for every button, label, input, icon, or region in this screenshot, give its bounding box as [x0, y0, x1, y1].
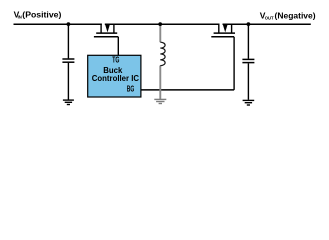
svg-text:(Negative): (Negative) [275, 11, 316, 21]
svg-text:Controller IC: Controller IC [92, 74, 140, 83]
svg-text:(Positive): (Positive) [22, 9, 61, 19]
svg-text:OUT: OUT [265, 16, 274, 21]
svg-text:TG: TG [112, 55, 119, 64]
svg-text:BG: BG [127, 84, 135, 93]
svg-text:IN: IN [18, 14, 22, 19]
